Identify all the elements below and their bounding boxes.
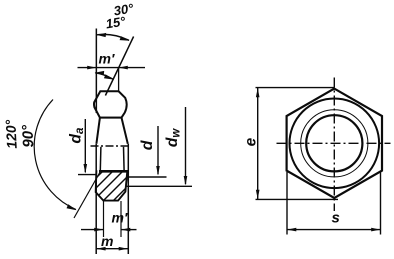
e extension line bottom xyxy=(256,198,339,200)
countersink cone edge right (in section) xyxy=(123,147,126,171)
d leader line (thread line extended) xyxy=(127,176,167,178)
axis centerline of nut (dash-dot) xyxy=(91,145,132,147)
chamfer circle xyxy=(290,99,380,189)
svg-text:d: d xyxy=(139,139,156,150)
label d_w (rotated) xyxy=(164,128,183,147)
m' dimension line (bottom) xyxy=(81,229,103,231)
middle facet chamfer lines (legs) xyxy=(96,118,100,144)
m dimension line (double arrow) xyxy=(96,248,128,250)
d_w leader line xyxy=(126,185,192,187)
thread major circle (thin) xyxy=(301,110,368,177)
countersink cone extension line xyxy=(74,173,100,219)
30deg angle dimension arc xyxy=(97,34,129,40)
label e (rotated) xyxy=(243,137,260,146)
svg-text:da: da xyxy=(67,127,86,143)
120/90deg angle dimension arc xyxy=(34,100,76,210)
extension line left vertical (nut left face extended up) xyxy=(95,29,97,114)
s extension line right xyxy=(380,172,382,235)
bottom extension line inner-left xyxy=(103,201,105,237)
s dimension line with arrows xyxy=(287,229,381,231)
hole wall edge (thick) xyxy=(99,170,129,173)
extension line right for m' (to top face corner) xyxy=(118,68,120,91)
svg-text:m′: m′ xyxy=(112,210,128,226)
bottom extension line inner-right xyxy=(120,201,122,237)
s extension line left xyxy=(286,172,288,235)
svg-text:m: m xyxy=(101,233,113,249)
15deg angle dimension arc xyxy=(95,73,113,79)
hexagon outline xyxy=(287,89,382,198)
svg-text:120°: 120° xyxy=(2,119,20,149)
d_a leader line xyxy=(78,174,96,176)
d dimension arrow xyxy=(157,126,159,174)
label d_a (rotated) xyxy=(67,127,86,143)
outer silhouette / extension line right xyxy=(127,144,129,254)
svg-text:15°: 15° xyxy=(105,13,128,31)
e dimension line with arrows xyxy=(257,88,259,200)
label d (rotated) xyxy=(139,139,156,150)
e extension line top xyxy=(256,87,335,89)
m' dimension line (top) with arrows xyxy=(78,67,146,69)
chamfer 30deg construction line xyxy=(105,37,133,96)
horizontal centerline xyxy=(277,142,391,144)
outer silhouette / extension line left xyxy=(95,144,97,254)
d_a dimension arrow xyxy=(84,119,86,172)
svg-text:s: s xyxy=(332,210,340,227)
d_w dimension arrow xyxy=(185,107,187,184)
section hatching xyxy=(88,158,146,216)
sectioned lower half outline xyxy=(96,170,128,200)
nut body upper half (side view): top facet with chamfer arcs xyxy=(94,91,127,117)
svg-text:dw: dw xyxy=(164,128,183,147)
facet edge line xyxy=(100,117,122,119)
svg-text:m′: m′ xyxy=(99,51,115,67)
vertical centerline xyxy=(333,78,335,212)
countersink cone edge left (in section) xyxy=(99,147,102,171)
thread minor circle (hole) xyxy=(306,115,362,171)
